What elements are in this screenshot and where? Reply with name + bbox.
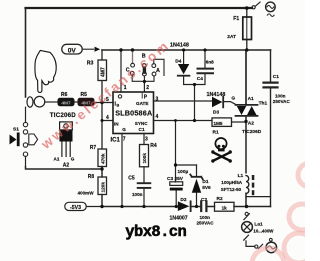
svg-text:C1: C1 [273,74,279,80]
svg-text:R1: R1 [213,130,219,136]
svg-text:1N4148: 1N4148 [170,42,189,48]
svg-text:IC1: IC1 [111,138,121,144]
svg-text:D4: D4 [175,59,181,65]
svg-text:100k: 100k [142,153,147,164]
svg-text:www.elecfans.com: www.elecfans.com [38,37,173,152]
svg-text:10...400W: 10...400W [253,229,274,234]
svg-text:A: A [156,68,160,74]
svg-text:D3: D3 [213,109,219,115]
svg-text:L1: L1 [238,173,244,179]
svg-text:B: B [117,104,120,108]
svg-text:100µ: 100µ [178,169,189,175]
svg-text:R3: R3 [87,60,94,66]
svg-text:1N4007: 1N4007 [170,216,188,222]
svg-text:4: 4 [106,115,109,121]
svg-text:2: 2 [146,85,149,91]
svg-text:-5V3: -5V3 [70,205,81,211]
svg-text:4M7: 4M7 [101,67,107,77]
svg-text:C3 25V: C3 25V [167,176,184,182]
svg-text:ybx8.cn: ybx8.cn [125,223,186,241]
svg-text:D2: D2 [180,197,186,203]
svg-text:6n8: 6n8 [206,60,214,65]
svg-text:3: 3 [156,96,159,102]
svg-text:D1: D1 [202,179,208,185]
svg-text:120k: 120k [101,182,106,193]
svg-text:250VAC: 250VAC [273,99,291,104]
svg-text:R4: R4 [150,143,157,149]
svg-text:1k: 1k [222,206,228,211]
svg-text:A2: A2 [248,120,254,126]
svg-text:R6: R6 [61,92,68,98]
svg-text:470k: 470k [101,153,106,164]
svg-text:7: 7 [123,136,126,142]
svg-text:F1: F1 [233,16,239,22]
svg-text:0V: 0V [68,48,77,55]
svg-text:C2: C2 [201,197,207,203]
svg-text:C5: C5 [128,175,135,181]
svg-text:R2: R2 [217,196,223,202]
svg-text:S1: S1 [13,126,19,132]
svg-text:1N4148: 1N4148 [207,92,226,98]
svg-text:SFT12-50: SFT12-50 [221,187,242,192]
svg-text:A1: A1 [54,156,60,161]
svg-text:C1: C1 [139,127,145,133]
svg-text:100n: 100n [275,93,286,98]
svg-text:100n: 100n [200,215,211,220]
svg-text:3: 3 [145,136,148,142]
svg-text:SLB0586A: SLB0586A [115,108,152,117]
svg-text:Th1: Th1 [259,100,268,106]
svg-text:G: G [71,156,75,161]
svg-text:250VAC: 250VAC [197,221,215,226]
svg-text:1M5: 1M5 [214,121,223,126]
svg-text:4M7: 4M7 [61,101,71,107]
svg-text:100µH/5A: 100µH/5A [221,180,242,185]
svg-text:5V6: 5V6 [202,185,211,191]
svg-text:P: P [144,95,148,101]
svg-text:R5: R5 [81,92,88,98]
svg-text:SYNC: SYNC [135,121,148,126]
svg-text:TIC206D: TIC206D [242,129,262,135]
svg-text:GATE: GATE [136,101,148,106]
svg-text:A1: A1 [248,96,254,102]
svg-text:A2: A2 [63,163,70,169]
svg-text:100n: 100n [132,192,143,197]
svg-text:La1: La1 [254,222,263,228]
svg-text:G: G [122,127,126,132]
svg-text:G: G [231,95,235,101]
svg-text:R8: R8 [88,174,95,180]
svg-text:400mW: 400mW [78,191,95,196]
svg-text:R7: R7 [90,145,97,151]
svg-text:4: 4 [156,114,159,120]
svg-text:2AT: 2AT [227,34,236,40]
svg-text:C4: C4 [197,76,203,82]
svg-text:IN: IN [114,121,119,126]
